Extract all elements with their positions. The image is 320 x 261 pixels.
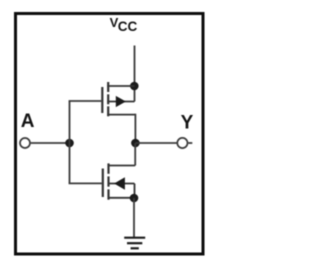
wire output node down to NMOS drain <box>134 143 136 166</box>
wire PMOS drain to output node <box>134 114 136 143</box>
output terminal Y <box>177 138 192 148</box>
transistor Q2 NMOS <box>103 163 135 199</box>
svg-text:Y: Y <box>181 113 194 134</box>
wire input A to gate junction <box>31 142 70 144</box>
ground <box>124 238 145 249</box>
wire output node to terminal Y <box>135 142 176 144</box>
wire PMOS gate lead <box>69 100 102 102</box>
wire gate bus vertical <box>69 101 71 183</box>
junction dot PMOS source / VCC <box>130 82 139 91</box>
transistor Q1 PMOS <box>102 82 135 116</box>
wire VCC rail vertical <box>134 46 136 102</box>
junction dot NMOS source <box>130 194 139 203</box>
power VCC label <box>110 15 138 34</box>
wire NMOS gate lead <box>69 182 102 184</box>
junction dot output node <box>131 139 140 148</box>
svg-text:A: A <box>21 111 35 132</box>
input terminal A <box>20 138 30 148</box>
junction dot gate node <box>65 139 74 148</box>
svg-text:CC: CC <box>118 19 138 34</box>
wire NMOS source to ground <box>133 198 135 238</box>
